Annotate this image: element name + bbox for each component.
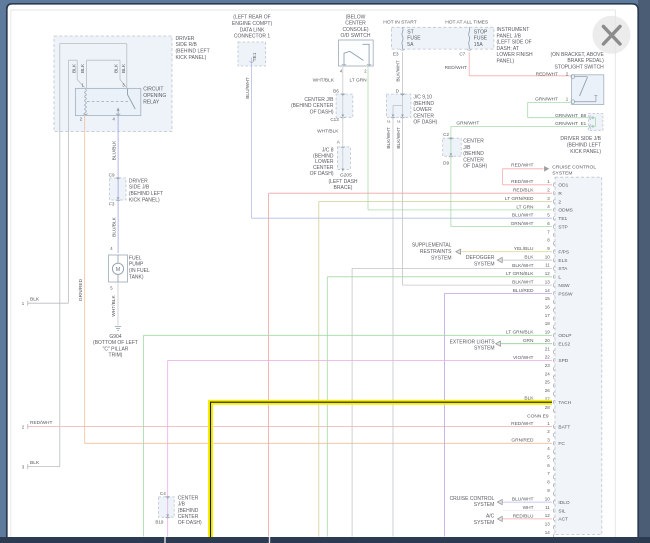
svg-text:C2: C2	[443, 132, 449, 137]
svg-text:BRAKE PEDAL): BRAKE PEDAL)	[567, 58, 604, 64]
fuel pump	[109, 255, 128, 282]
svg-text:OF DASH): OF DASH)	[310, 171, 334, 177]
svg-text:TANK): TANK)	[129, 275, 144, 281]
svg-text:(BEHIND LEFT: (BEHIND LEFT	[129, 191, 163, 197]
svg-text:PANEL): PANEL)	[497, 59, 515, 65]
svg-text:BLU/WHT: BLU/WHT	[245, 77, 251, 99]
wire YEL/BLU to ECU pin9	[461, 251, 552, 253]
ECU conn E9 pin 4	[547, 446, 554, 454]
ECU pin 4	[516, 204, 572, 214]
svg-text:BRACE): BRACE)	[334, 185, 353, 191]
wire BLK stub left pair	[68, 59, 77, 61]
svg-text:M: M	[116, 267, 121, 273]
svg-text:FC: FC	[558, 441, 565, 447]
svg-text:RED/WHT: RED/WHT	[536, 71, 558, 77]
node stub 3 BLK	[28, 466, 60, 468]
ECU conn E9 pin 14	[545, 530, 555, 538]
node stub 1 BLK	[28, 302, 69, 304]
svg-text:(BEHIND LEFT: (BEHIND LEFT	[567, 143, 601, 149]
svg-text:PUMP: PUMP	[129, 262, 144, 268]
svg-text:FUSE: FUSE	[407, 36, 421, 42]
fuse ST 5A	[402, 27, 403, 49]
svg-text:CENTER: CENTER	[413, 113, 434, 119]
svg-text:BLK: BLK	[72, 63, 78, 73]
svg-text:CRUISE CONTROL: CRUISE CONTROL	[450, 496, 495, 502]
svg-text:(BEHIND LEFT: (BEHIND LEFT	[176, 49, 210, 55]
wire WHT/BLK pump to G904	[117, 282, 119, 326]
svg-text:28: 28	[545, 405, 551, 410]
svg-text:BLK: BLK	[30, 297, 40, 303]
ECU pin 14	[513, 288, 573, 298]
wire BLK pair right	[87, 59, 120, 61]
svg-text:BLU/WHT: BLU/WHT	[512, 497, 534, 503]
wire RED/WHT ECU pin1 to cruise control	[503, 184, 553, 186]
wire BLK/WHT to ECU pin11	[351, 268, 353, 536]
JC910 internal split	[402, 94, 404, 117]
svg-text:(ON BRACKET, ABOVE: (ON BRACKET, ABOVE	[550, 52, 604, 58]
svg-text:STP: STP	[558, 224, 567, 230]
ECU pin 27	[524, 396, 571, 406]
svg-text:GRN/WHT: GRN/WHT	[511, 221, 534, 227]
ECU conn E9 pin 7	[547, 471, 554, 479]
svg-text:(LEFT REAR OF: (LEFT REAR OF	[233, 15, 270, 21]
svg-text:SYSTEM: SYSTEM	[474, 262, 495, 268]
svg-text:SYSTEM: SYSTEM	[474, 502, 495, 508]
svg-text:13: 13	[545, 279, 551, 284]
svg-text:SYSTEM: SYSTEM	[552, 171, 572, 177]
wire GRN/WHT stoplight pin1 to B8	[528, 101, 572, 103]
svg-text:15: 15	[545, 296, 551, 301]
ECU pin 19	[506, 330, 572, 340]
ground G904	[115, 327, 121, 331]
ECU pin 26	[545, 388, 555, 396]
svg-text:WHT/BLK: WHT/BLK	[313, 78, 335, 84]
svg-text:CRUISE CONTROL: CRUISE CONTROL	[552, 164, 596, 170]
svg-text:E3: E3	[393, 51, 399, 56]
ECU pin 11	[512, 263, 568, 273]
svg-text:LOWER: LOWER	[413, 107, 432, 113]
ECU conn E9 pin 11	[523, 505, 566, 515]
svg-text:BLK: BLK	[524, 254, 534, 260]
svg-text:CENTER J/B: CENTER J/B	[304, 97, 334, 103]
ECU pin 10	[524, 254, 567, 264]
ECU conn E9 pin 12	[513, 513, 568, 523]
wire BLU/WHT TE1 to ECU pin5	[251, 58, 253, 219]
wire BLU/BLK C9 to fuel pump	[117, 200, 119, 253]
svg-text:13: 13	[545, 522, 551, 527]
svg-text:CIRCUIT: CIRCUIT	[143, 87, 163, 93]
svg-text:GRN/RED: GRN/RED	[78, 278, 84, 301]
ECU pin 21	[545, 346, 555, 354]
svg-text:C13: C13	[330, 117, 339, 122]
svg-text:14: 14	[545, 530, 551, 535]
svg-text:OF DASH): OF DASH)	[178, 520, 202, 526]
svg-text:PANEL J/B: PANEL J/B	[497, 33, 522, 39]
svg-text:2: 2	[558, 199, 561, 205]
svg-text:SYSTEM: SYSTEM	[474, 346, 495, 352]
wire GRN/RED relay pin2 to ECU2 pin3	[84, 116, 86, 444]
svg-text:BLK: BLK	[80, 63, 86, 73]
svg-text:(BOTTOM OF LEFT: (BOTTOM OF LEFT	[93, 340, 138, 346]
svg-text:15A: 15A	[474, 42, 484, 48]
svg-text:INSTRUMENT: INSTRUMENT	[497, 27, 530, 33]
svg-text:FUSE: FUSE	[474, 36, 488, 42]
svg-text:23: 23	[545, 363, 551, 368]
svg-text:DRIVER: DRIVER	[129, 178, 148, 184]
ECU pin 24	[545, 371, 555, 379]
svg-text:HOT AT ALL TIMES: HOT AT ALL TIMES	[445, 20, 489, 26]
ECU conn E9 pin 8	[547, 480, 554, 488]
wire RED/BLU ECU2 pin12	[503, 518, 552, 520]
svg-text:BLK: BLK	[30, 460, 40, 466]
svg-text:26: 26	[545, 388, 551, 393]
wire WHT/BLK OD pin4 to B6	[342, 67, 344, 94]
wire VIO/WHT to ECU pin22 via C4	[167, 360, 169, 536]
svg-text:DRIVER SIDE J/B: DRIVER SIDE J/B	[560, 136, 601, 142]
svg-text:B6: B6	[333, 88, 339, 93]
svg-text:DEFOGGER: DEFOGGER	[466, 255, 495, 261]
svg-text:19: 19	[545, 330, 551, 335]
wire BLK highlighted (TACH) yellow	[211, 402, 553, 538]
svg-text:OPENING: OPENING	[143, 93, 166, 99]
svg-text:STA: STA	[558, 266, 568, 272]
svg-text:10: 10	[545, 254, 551, 259]
stoplight switch box	[572, 75, 604, 105]
svg-text:LT GRN/BLK: LT GRN/BLK	[506, 330, 534, 336]
connector C9/F3 driver side J/B	[110, 178, 127, 200]
svg-text:(BEHIND: (BEHIND	[413, 101, 434, 107]
ECU pin 12	[506, 271, 561, 281]
ECU dashed box	[555, 177, 602, 534]
ECU pin 1	[511, 179, 568, 189]
svg-text:25: 25	[545, 380, 551, 385]
svg-text:OF DASH): OF DASH)	[463, 164, 487, 170]
svg-text:LT GRN/RED: LT GRN/RED	[505, 196, 534, 202]
svg-text:12: 12	[545, 513, 551, 518]
ECU conn E9 pin 6	[547, 463, 554, 471]
svg-text:OD1: OD1	[558, 183, 568, 189]
svg-text:BLK: BLK	[114, 63, 120, 73]
svg-text:10: 10	[545, 496, 551, 501]
svg-text:BLK/WHT: BLK/WHT	[512, 263, 533, 269]
ECU conn E9 pin 13	[545, 522, 555, 530]
pin C7	[467, 48, 471, 51]
ECU pin 18	[545, 321, 555, 329]
svg-text:STOP: STOP	[474, 29, 488, 35]
svg-text:16: 16	[545, 305, 551, 310]
ECU pin 20	[523, 338, 571, 348]
svg-text:21: 21	[545, 346, 551, 351]
svg-text:RED/WHT: RED/WHT	[511, 179, 533, 185]
svg-text:RED/WHT: RED/WHT	[30, 420, 52, 426]
svg-text:LOWER FINISH: LOWER FINISH	[497, 52, 534, 58]
svg-text:CONNECTOR 1: CONNECTOR 1	[234, 34, 271, 40]
ECU conn E9 pin 2	[547, 429, 554, 437]
svg-text:RESTRAINTS: RESTRAINTS	[420, 249, 452, 255]
wire BLU/BLK relay pin4 to C9	[117, 116, 119, 178]
svg-text:CENTER: CENTER	[345, 21, 366, 27]
svg-text:GRN: GRN	[523, 338, 534, 344]
svg-text:(LEFT SIDE OF: (LEFT SIDE OF	[497, 40, 532, 46]
ECU conn E9 pin 3	[511, 438, 565, 448]
svg-text:G904: G904	[109, 334, 121, 340]
svg-text:SYSTEM: SYSTEM	[474, 520, 495, 526]
ECU pin 2	[513, 187, 562, 197]
wire BLK into relay pin 1	[76, 60, 78, 79]
svg-text:WHT: WHT	[523, 505, 534, 511]
svg-text:RED/BLU: RED/BLU	[513, 513, 534, 519]
node stub 2 RED/WHT to ECU2 pin1	[28, 426, 552, 428]
svg-text:GRN/WHT: GRN/WHT	[456, 120, 479, 126]
svg-text:BLK/WHT: BLK/WHT	[386, 127, 392, 148]
svg-text:STOPLIGHT SWITCH: STOPLIGHT SWITCH	[555, 65, 605, 71]
ECU pin 7	[547, 229, 554, 237]
stoplight switch internals	[574, 76, 588, 78]
svg-text:SIL: SIL	[558, 508, 566, 514]
svg-text:ENGINE COMPT): ENGINE COMPT)	[232, 21, 273, 27]
svg-text:L: L	[558, 275, 561, 281]
driver side R/B dashed box	[54, 36, 172, 132]
ECU conn E9 pin 1	[511, 421, 570, 431]
circuit opening relay box	[75, 88, 140, 115]
wire BLU/WHT ECU2 pin10	[503, 501, 552, 503]
close button	[593, 16, 631, 54]
ECU pin 5	[512, 213, 568, 223]
ECU pin 6	[511, 221, 568, 231]
svg-text:12: 12	[545, 271, 551, 276]
svg-text:GRN/RED: GRN/RED	[511, 438, 534, 444]
svg-text:ST: ST	[407, 29, 413, 35]
wire BLK relay pin3 feed	[126, 44, 128, 89]
svg-text:C4: C4	[160, 491, 166, 496]
svg-text:RED/WHT: RED/WHT	[445, 65, 467, 71]
ECU pin 28	[545, 405, 555, 413]
wire WHT/BLK C13 to JC8	[342, 117, 344, 147]
svg-text:WHT/BLK: WHT/BLK	[111, 295, 117, 317]
wire BLK/WHT E3 to JC910	[402, 52, 404, 94]
ECU pin 22	[513, 355, 569, 365]
fuse box	[391, 27, 494, 49]
svg-text:(LEFT DASH: (LEFT DASH	[328, 179, 357, 185]
svg-text:14: 14	[545, 288, 551, 293]
svg-text:VIO/WHT: VIO/WHT	[513, 355, 534, 361]
svg-text:11: 11	[545, 263, 550, 268]
svg-text:F: F	[386, 120, 391, 123]
svg-text:BLU/RED: BLU/RED	[513, 288, 534, 294]
svg-text:EXTERIOR LIGHTS: EXTERIOR LIGHTS	[450, 339, 496, 345]
svg-text:LT GRN: LT GRN	[516, 204, 534, 210]
ECU conn E9 pin 10	[512, 496, 570, 506]
wire LT GRN/BLK to ECU pin12	[326, 277, 328, 537]
svg-text:KICK PANEL): KICK PANEL)	[129, 198, 160, 204]
svg-text:BLK/WHT: BLK/WHT	[512, 280, 533, 286]
svg-text:CONSOLE): CONSOLE)	[342, 27, 368, 33]
jumper inside driver side J/B	[591, 117, 596, 119]
svg-text:F3: F3	[109, 202, 115, 207]
svg-text:(BEHIND: (BEHIND	[463, 151, 484, 157]
svg-text:ELS2: ELS2	[558, 341, 570, 347]
svg-text:RED/BLK: RED/BLK	[513, 188, 534, 194]
svg-text:(BELOW: (BELOW	[346, 15, 366, 21]
svg-text:24: 24	[545, 371, 551, 376]
svg-text:A/C: A/C	[486, 513, 495, 519]
svg-text:BLK: BLK	[121, 63, 127, 73]
svg-text:LT GRN: LT GRN	[350, 78, 368, 84]
svg-text:OF DASH): OF DASH)	[310, 109, 334, 115]
svg-text:SYSTEM: SYSTEM	[431, 255, 452, 261]
svg-text:J/C 9,10: J/C 9,10	[413, 95, 432, 101]
relay link dashed	[87, 101, 129, 103]
svg-text:BLK/WHT: BLK/WHT	[396, 127, 402, 148]
svg-text:ACT: ACT	[558, 517, 568, 523]
svg-text:OF DASH): OF DASH)	[413, 120, 437, 126]
svg-text:RELAY: RELAY	[143, 99, 160, 105]
ECU pin 8	[547, 238, 554, 246]
ECU pin 9	[514, 246, 569, 256]
svg-text:DATA LINK: DATA LINK	[240, 27, 265, 33]
svg-text:KICK PANEL): KICK PANEL)	[176, 55, 207, 61]
svg-text:NSW: NSW	[558, 283, 570, 289]
svg-text:22: 22	[545, 355, 551, 360]
svg-text:J/B: J/B	[178, 502, 186, 508]
wire BLK relay top loop	[60, 43, 127, 45]
svg-text:FUEL: FUEL	[129, 255, 142, 261]
pin E3	[400, 48, 404, 51]
svg-text:HOT IN START: HOT IN START	[383, 20, 416, 26]
svg-text:GRN/WHT: GRN/WHT	[535, 97, 558, 103]
svg-text:J/B: J/B	[463, 145, 471, 151]
wire LT GRN/RED to ECU pin3	[318, 202, 320, 537]
wire BLK vertical to stub 1	[67, 60, 69, 303]
wire BLU/RED to ECU pin14	[444, 294, 446, 537]
svg-text:17: 17	[545, 313, 551, 318]
wire WHT ECU2 pin11	[503, 510, 552, 512]
svg-text:BLU/BLK: BLU/BLK	[111, 216, 117, 237]
wire RED/BLK to ECU pin2	[268, 193, 270, 536]
connector B8/E1	[588, 114, 603, 131]
svg-text:(IN FUEL: (IN FUEL	[129, 268, 150, 274]
svg-text:C9: C9	[109, 173, 115, 178]
ECU pin 3	[505, 196, 562, 206]
ECU pin 17	[545, 313, 555, 321]
wire BLK/WHT F-left down off page	[392, 117, 394, 536]
svg-text:11: 11	[545, 505, 550, 510]
svg-text:TE1: TE1	[558, 216, 567, 222]
wire BLK to ECU pin10	[503, 259, 552, 261]
svg-text:TACH: TACH	[558, 400, 571, 406]
svg-text:DASH; AT: DASH; AT	[497, 46, 519, 52]
svg-text:G205: G205	[340, 172, 352, 178]
svg-text:DRIVER: DRIVER	[176, 36, 195, 42]
svg-text:SUPPLEMENTAL: SUPPLEMENTAL	[412, 243, 452, 249]
relay pin4 arrow	[117, 110, 119, 116]
svg-text:TE1: TE1	[252, 52, 258, 61]
svg-text:CENTER: CENTER	[463, 157, 484, 163]
O/D switch contacts	[344, 51, 363, 66]
svg-text:YEL/BLU: YEL/BLU	[514, 246, 534, 252]
svg-text:PSSW: PSSW	[558, 291, 573, 297]
fuse STOP 15A	[469, 27, 470, 49]
svg-text:CONN E9: CONN E9	[527, 413, 549, 419]
svg-text:SIDE J/B: SIDE J/B	[129, 185, 150, 191]
svg-text:BLU/BLK: BLU/BLK	[111, 140, 117, 161]
svg-text:GRN/WHT: GRN/WHT	[555, 113, 578, 119]
svg-text:B19: B19	[155, 519, 164, 524]
svg-text:F: F	[396, 120, 401, 123]
wire LT GRN OD pin2 to ECU pin4	[367, 67, 369, 210]
svg-text:TRIM): TRIM)	[109, 353, 123, 359]
svg-text:RED/WHT: RED/WHT	[511, 421, 533, 427]
svg-text:O/D SWITCH: O/D SWITCH	[341, 33, 371, 39]
svg-text:(BEHIND: (BEHIND	[178, 508, 199, 514]
svg-text:SPD: SPD	[558, 358, 568, 364]
svg-text:"C" PILLAR: "C" PILLAR	[103, 346, 129, 352]
svg-text:5A: 5A	[407, 42, 414, 48]
O/D switch box	[339, 40, 374, 66]
svg-text:BLK/WHT: BLK/WHT	[396, 60, 402, 81]
wire GRN/WHT D9 to ECU pin6	[450, 156, 452, 226]
svg-text:CENTER: CENTER	[178, 495, 199, 501]
ECU pin 13	[512, 279, 570, 289]
svg-text:BLU/WHT: BLU/WHT	[512, 213, 534, 219]
svg-text:ELS: ELS	[558, 258, 567, 264]
data link connector TE1 box	[238, 42, 266, 66]
viewer bottom bar	[0, 537, 650, 543]
svg-text:RED/WHT: RED/WHT	[511, 162, 533, 168]
svg-text:(BEHIND CENTER: (BEHIND CENTER	[291, 103, 334, 109]
svg-text:C7: C7	[459, 51, 465, 56]
svg-text:B8: B8	[581, 113, 587, 118]
wire BLK/WHT F-right to ECU pin13	[402, 117, 404, 285]
relay switch	[128, 89, 136, 109]
wire GRN to ECU pin20	[501, 343, 552, 345]
svg-text:BATT: BATT	[558, 424, 570, 430]
svg-text:F/PS: F/PS	[558, 249, 569, 255]
ECU conn E9 pin 5	[547, 454, 554, 462]
svg-text:CENTER: CENTER	[463, 139, 484, 145]
svg-text:CENTER: CENTER	[178, 514, 199, 520]
svg-text:SIDE R/B: SIDE R/B	[176, 42, 198, 48]
svg-text:D9: D9	[443, 160, 449, 165]
relay coil	[85, 89, 87, 114]
svg-text:KICK PANEL): KICK PANEL)	[570, 149, 601, 155]
svg-text:WHT/BLK: WHT/BLK	[317, 129, 339, 135]
wire RED/WHT C7 to stoplight switch	[468, 52, 470, 76]
svg-text:LT GRN/BLK: LT GRN/BLK	[506, 271, 534, 277]
svg-text:ODMS: ODMS	[558, 208, 572, 214]
svg-text:IDLO: IDLO	[558, 500, 569, 506]
ECU pin 25	[545, 380, 555, 388]
svg-text:R: R	[558, 191, 562, 197]
svg-text:18: 18	[545, 321, 551, 326]
svg-text:20: 20	[545, 338, 551, 343]
svg-text:E1: E1	[581, 121, 587, 126]
ECU pin 16	[545, 305, 555, 313]
ECU pin 15	[545, 296, 555, 304]
wire GRN/WHT E1 to C2	[451, 125, 588, 127]
wire LT GRN/BLK to ECU pin19	[143, 335, 145, 536]
ECU pin 23	[545, 363, 555, 371]
ECU conn E9 pin 9	[547, 488, 554, 496]
svg-text:ODLP: ODLP	[558, 333, 571, 339]
wire BLK vertical to stub 3	[59, 44, 61, 467]
